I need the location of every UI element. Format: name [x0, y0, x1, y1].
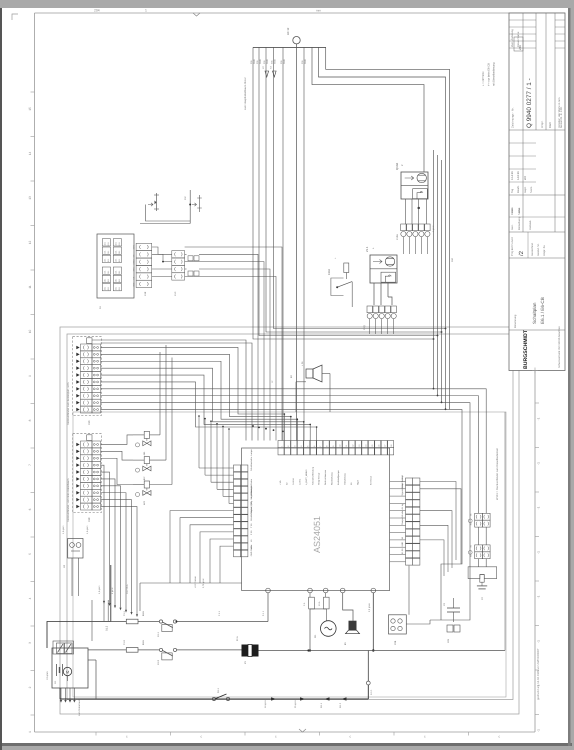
switch S5b	[65, 643, 73, 654]
terminal strip X10A	[401, 224, 406, 231]
fuse F1.2	[126, 648, 138, 653]
left region vertical wires to bottom	[91, 600, 93, 641]
motor starter Q10A outline	[401, 172, 428, 199]
svg-text:AS24051: AS24051	[312, 516, 322, 553]
connector X18 row 9 arrow	[76, 498, 79, 502]
extra long bus wires upper band	[92, 340, 246, 441]
horn component	[343, 593, 353, 621]
dip column interconnect wires	[152, 247, 172, 254]
svg-text:+BR2: +BR2	[133, 245, 136, 250]
relay coil K203	[144, 481, 149, 488]
wire drop turn 1	[253, 47, 434, 339]
switch box group on battery	[53, 641, 74, 654]
controller left pin strip	[234, 465, 241, 472]
motor starter Q10A breaker circle	[417, 173, 426, 182]
relay terminal cluster 1	[475, 513, 483, 520]
connector X18 pin row 5	[81, 469, 93, 476]
connector arrow on wire 4	[273, 71, 277, 77]
relay coil capacitor	[481, 582, 483, 586]
connector X19 row 10 arrow	[76, 408, 79, 412]
svg-text:Bemerkung: Bemerkung	[518, 216, 521, 230]
svg-text:Kl.Sensor: Kl.Sensor	[369, 476, 372, 485]
wire drop turn 3	[266, 47, 442, 332]
svg-text:Kl. 50: Kl. 50	[401, 548, 404, 554]
frame labels right edge line ticks	[535, 402, 539, 404]
svg-text:50 A: 50 A	[236, 636, 239, 641]
svg-text:Gepr.: Gepr.	[524, 186, 527, 193]
svg-text:Blatt: Blatt	[548, 122, 552, 128]
svg-text:35 qmm: 35 qmm	[294, 700, 297, 708]
connector X18 pin row 1	[81, 441, 93, 448]
svg-text:Steckverbinder zum Bedienpult,: Steckverbinder zum Bedienpult, vorn	[67, 382, 70, 425]
svg-text:X29: X29	[447, 638, 450, 643]
svg-text:-1: -1	[537, 551, 541, 554]
svg-text:mit Dieselbedienung: mit Dieselbedienung	[493, 62, 496, 86]
battery symbol	[56, 664, 58, 676]
svg-text:X1B: X1B	[144, 291, 147, 296]
top bus wire	[253, 46, 326, 48]
svg-text:16 qmm: 16 qmm	[264, 700, 267, 708]
svg-text:X10A: X10A	[396, 234, 399, 240]
svg-text:2: 2	[28, 686, 32, 688]
connector X19 pin row 8	[81, 392, 93, 399]
wire drop turn 2	[259, 47, 438, 335]
connector X19 pin row 1	[81, 344, 93, 351]
svg-text:S1.2 35 A: S1.2 35 A	[126, 584, 129, 594]
connector X18 row 6 arrow	[76, 477, 79, 481]
rail right vertical up	[367, 685, 369, 699]
wires from AS left pins going left and down	[170, 511, 234, 583]
connector X18 row 8 arrow	[76, 491, 79, 495]
svg-text:mm: mm	[316, 9, 321, 13]
svg-text:6 qmm: 6 qmm	[432, 225, 435, 232]
svg-text:Hupe: Hupe	[356, 479, 359, 485]
connector X19 row 3 arrow	[76, 360, 79, 364]
dip output paired squares	[188, 256, 193, 261]
connector X18 row 5 arrow	[76, 470, 79, 474]
speaker symbol B2	[306, 369, 313, 378]
switch wire down	[351, 282, 353, 307]
svg-text:S1.2: S1.2	[106, 625, 109, 631]
frame column tick labels left edge	[31, 91, 35, 93]
svg-text:Urspr.: Urspr.	[540, 120, 544, 128]
connector X19 row 1 arrow	[76, 346, 79, 350]
wires Q10A to terminal strip X10A	[404, 199, 406, 224]
svg-text:Rückmeldung: Rückmeldung	[331, 471, 334, 485]
motor starter Q1 breaker circle	[385, 257, 394, 266]
svg-text:Vorwärmung: Vorwärmung	[344, 472, 347, 485]
svg-text:W1.1: W1.1	[320, 702, 323, 708]
svg-text:Starter: Starter	[250, 479, 253, 486]
svg-text:W1.2: W1.2	[339, 702, 342, 708]
svg-text:Norm: Norm	[530, 187, 533, 193]
svg-text:304: 304	[451, 257, 454, 262]
svg-text:Q10A: Q10A	[395, 163, 399, 170]
wire turn right A	[326, 47, 450, 409]
drawing frame border	[35, 12, 566, 14]
svg-text:6: 6	[28, 508, 32, 510]
svg-text:13: 13	[28, 196, 32, 200]
connector X18 top cell	[87, 435, 92, 441]
svg-text:E6.1 / E6-CB: E6.1 / E6-CB	[540, 297, 545, 324]
relay coil tab	[480, 575, 484, 583]
svg-text:Bearb.: Bearb.	[517, 185, 520, 193]
svg-text:8: 8	[28, 419, 32, 421]
svg-text:CAN H: CAN H	[292, 478, 295, 485]
svg-text:Datum Name: Datum Name	[517, 31, 520, 47]
wire right end up	[504, 412, 506, 651]
X19 row 8 long wire to relay column	[101, 396, 479, 514]
connector group X18 dashed outline	[73, 434, 102, 513]
relay coil K202	[144, 457, 149, 464]
svg-text:BURGSCHMIDT: BURGSCHMIDT	[523, 329, 529, 369]
junction dots on center buses	[252, 425, 254, 427]
svg-text:Signalstecker: Signalstecker	[401, 483, 404, 496]
svg-text:Zeichnungs - Nr.: Zeichnungs - Nr.	[511, 107, 515, 128]
diode bowtie K202	[143, 466, 151, 471]
svg-text:-1: -1	[537, 417, 541, 420]
title block benennung cell	[509, 329, 565, 331]
svg-text:X18: X18	[88, 517, 91, 522]
motor starter Q10A divider	[401, 184, 428, 186]
relay coil K201	[144, 431, 149, 438]
svg-text:14: 14	[28, 152, 32, 156]
connector group X19 dashed outline	[73, 337, 102, 416]
svg-text:K1.1: K1.1	[157, 631, 160, 637]
controller AS24051 body	[242, 448, 390, 591]
connector X19 pin row 7	[81, 385, 93, 392]
svg-text:Gez.: Gez.	[511, 224, 514, 230]
wire trunk verticals	[433, 150, 435, 389]
connector X18 pin row 2	[81, 448, 93, 455]
dip switch cells	[102, 239, 110, 246]
svg-text:3.1.1: 3.1.1	[262, 610, 265, 616]
svg-text:-1: -1	[537, 506, 541, 509]
connector X19 pin row 3	[81, 358, 93, 365]
svg-text:A_BATT_MINUS: A_BATT_MINUS	[305, 469, 308, 485]
junction dot under Q10A	[418, 207, 420, 209]
relay K0 box	[68, 539, 83, 559]
title block sheet fraction cell	[509, 257, 565, 259]
connector X18 pin row 7	[81, 482, 93, 489]
svg-text:zum Hauptkabelbaum Motor: zum Hauptkabelbaum Motor	[244, 77, 247, 110]
connector X18 pin row 8	[81, 489, 93, 496]
wire drop 5 straight to strip	[282, 47, 284, 440]
svg-text:-1: -1	[537, 595, 541, 598]
wire drop turn 4	[274, 47, 446, 328]
wire from fuse holder down and right	[146, 205, 191, 222]
connector X18 pin row 4	[81, 462, 93, 469]
boundary box outer	[60, 327, 519, 714]
controller top pin strip	[278, 441, 284, 448]
svg-text:Maßstab: Maßstab	[529, 220, 532, 230]
wires Q1 to strip X1Q	[373, 283, 375, 305]
connector X18 row 3 arrow	[76, 457, 79, 461]
svg-text:M: M	[66, 670, 69, 675]
switch S202 lever	[336, 286, 338, 288]
wire X28 right	[406, 620, 430, 624]
wire from terminal 268 down to K line	[267, 593, 269, 622]
rail junction marks	[271, 697, 277, 700]
svg-text:9: 9	[28, 375, 32, 377]
svg-text:F1.1: F1.1	[123, 611, 126, 616]
dip connector column X1C	[172, 251, 185, 258]
connector X19 pin row 9	[81, 399, 93, 406]
connector X19 pin row 2	[81, 351, 93, 358]
svg-text:S1.1: S1.1	[217, 687, 220, 693]
svg-text:Tag: Tag	[511, 188, 514, 193]
X19 row 7 long wire to relay column	[101, 389, 487, 513]
svg-text:Schaltplan: Schaltplan	[532, 302, 537, 324]
relay socket bracket	[468, 567, 497, 579]
svg-text:Geänd. Nr.: Geänd. Nr.	[537, 243, 540, 256]
horizontal wire under AS	[140, 582, 242, 584]
switch S5a	[57, 643, 65, 654]
svg-text:GND Starter: GND Starter	[250, 544, 253, 556]
svg-text:12.4.99: 12.4.99	[511, 171, 514, 180]
svg-text:/2: /2	[518, 250, 525, 256]
svg-text:-1: -1	[537, 640, 541, 643]
svg-text:Urspr. Zu: Urspr. Zu	[543, 245, 546, 256]
node circle A0	[293, 37, 300, 44]
svg-text:F202: F202	[328, 269, 331, 275]
wire X21 down to X28	[408, 566, 410, 615]
motor starter Q1 outline	[370, 255, 397, 283]
svg-text:Temp-Sensor: Temp-Sensor	[318, 472, 321, 485]
starter motor circle	[63, 667, 71, 675]
fuse F202 small	[344, 263, 349, 273]
relay terminal cluster 2	[475, 545, 483, 552]
svg-text:12: 12	[28, 241, 32, 245]
svg-text:GND: GND	[274, 59, 277, 64]
bus joining fuses	[310, 608, 327, 610]
svg-text:1,5 qmm: 1,5 qmm	[62, 525, 65, 534]
title block date rows	[509, 142, 536, 144]
connector X19 top cell	[87, 338, 92, 344]
fan wires from X18	[101, 435, 133, 445]
connector X19 row 5 arrow	[76, 373, 79, 377]
dip fan wires to center	[185, 253, 187, 255]
title block revision marker	[514, 37, 523, 51]
connector X19 row 8 arrow	[76, 394, 79, 398]
svg-text:S.1/1: S.1/1	[370, 689, 373, 695]
corner registration mark	[12, 14, 18, 20]
connector X18 row 2 arrow	[76, 450, 79, 454]
connector X19 pin row 6	[81, 379, 93, 386]
X19 row 9 long wire to X28	[101, 403, 470, 620]
title block outer box	[509, 13, 565, 371]
svg-text:gedruckt am 14.06.1999 von M: gedruckt am 14.06.1999 von MAYERBOT	[536, 648, 540, 700]
svg-text:GND: GND	[304, 59, 307, 64]
svg-text:21.1: 21.1	[365, 246, 369, 252]
svg-text:Wkst.: Wkst.	[518, 207, 521, 213]
diode bowtie K203	[143, 491, 151, 496]
svg-text:Kraftstoffpumpe: Kraftstoffpumpe	[337, 470, 340, 485]
indicator circle K201	[136, 443, 140, 447]
battery plates below	[60, 688, 62, 700]
svg-text:11: 11	[28, 285, 32, 289]
svg-text:5: 5	[28, 553, 32, 555]
diode line continues right	[259, 650, 506, 652]
terminal strip X1Q	[367, 306, 372, 313]
dip switch block S1 outline	[97, 234, 134, 298]
wires battery to rail	[88, 659, 96, 661]
connector X28 block	[389, 615, 407, 634]
svg-text:# = nur beim E6-CB: # = nur beim E6-CB	[488, 63, 491, 86]
svg-text:1: 1	[145, 9, 147, 13]
svg-text:10 qmm: 10 qmm	[46, 671, 49, 680]
svg-text:Proj.techn.zust: Proj.techn.zust	[510, 237, 514, 256]
svg-text:Gezeichnet: Gezeichnet	[531, 243, 534, 256]
svg-text:Verteiler: alle Werte in mm: Verteiler: alle Werte in mm	[558, 98, 561, 128]
svg-text:Schutzvermerk ISO 16016 beach: Schutzvermerk ISO 16016 beachten	[558, 326, 561, 368]
svg-text:Drehzahlmesser: Drehzahlmesser	[324, 470, 327, 485]
svg-text:14.6.99: 14.6.99	[517, 171, 520, 180]
svg-text:Rückfahrsignal: Rückfahrsignal	[250, 506, 253, 520]
diode bowtie K201	[143, 441, 151, 446]
svg-text:10: 10	[28, 330, 32, 334]
svg-text:+BR1: +BR1	[133, 267, 136, 272]
svg-text:GND: GND	[259, 59, 262, 64]
svg-text:Schaltkontakt u. Lampe: Schaltkontakt u. Lampe	[250, 448, 253, 471]
connector X18 pin row 10	[81, 503, 93, 510]
X19 row 10 long wire	[101, 410, 462, 620]
svg-text:GND: GND	[283, 59, 286, 64]
connector X19 row 9 arrow	[76, 401, 79, 405]
wire terminal 373 down to rail	[372, 593, 374, 651]
wire drop 6 straight to strip	[303, 47, 305, 440]
frame labels bottom edge	[95, 732, 97, 736]
svg-text:3: 3	[28, 642, 32, 644]
fuse F1.1	[126, 619, 138, 624]
wire turn right C	[312, 47, 424, 172]
fuse under terminal 326	[325, 593, 327, 597]
motor M circle	[321, 621, 337, 637]
svg-text:Tempo-Schalter: Tempo-Schalter	[401, 510, 404, 525]
svg-text:X19: X19	[88, 420, 91, 425]
svg-text:4: 4	[28, 597, 32, 599]
switch S1.2 vertical	[110, 565, 112, 622]
connector X18 pin row 9	[81, 496, 93, 503]
connector X18 pin row 3	[81, 455, 93, 462]
svg-text:zum Motorraum: zum Motorraum	[78, 699, 81, 716]
svg-text:2,5 qmm: 2,5 qmm	[368, 603, 371, 612]
svg-text:GND: GND	[253, 59, 256, 64]
svg-text:Benennung: Benennung	[514, 314, 517, 328]
verticals from K relay stubs	[159, 352, 161, 435]
svg-text:2 A: 2 A	[303, 602, 306, 606]
motor starter Q10A aux box	[413, 189, 428, 199]
main rail bottom	[60, 698, 368, 700]
svg-text:7: 7	[28, 464, 32, 466]
svg-text:Zust. Änderung: Zust. Änderung	[510, 29, 514, 47]
motor starter Q1 aux box	[381, 272, 396, 282]
K0 wires down	[71, 558, 73, 596]
title block ers cells	[509, 216, 565, 218]
connector X19 row 6 arrow	[76, 380, 79, 384]
motor starter Q1 divider	[370, 268, 397, 270]
boundary box section right	[73, 412, 506, 697]
svg-text:63 A: 63 A	[142, 640, 145, 645]
svg-text:2.1.1: 2.1.1	[218, 610, 221, 616]
svg-text:Q 9940 0277 / 1 -: Q 9940 0277 / 1 -	[526, 78, 533, 128]
left pins to verticals junctions	[199, 467, 234, 469]
diode V1 line	[177, 649, 242, 651]
svg-text:1: 1	[28, 731, 32, 733]
connector X18 pin row 6	[81, 476, 93, 483]
connector X19 pin row 4	[81, 365, 93, 372]
svg-text:1,5 qmm: 1,5 qmm	[98, 585, 101, 594]
relay contact K1.2	[159, 648, 162, 651]
wires from X21 strip to right	[420, 482, 456, 561]
relay contact K1.1	[159, 620, 162, 623]
svg-text:204: 204	[94, 9, 100, 13]
svg-text:10 A: 10 A	[318, 601, 321, 606]
wires AS right edge to X21 strip	[390, 481, 406, 483]
svg-text:Obfl.: Obfl.	[511, 208, 514, 213]
boundary box inner	[67, 334, 513, 700]
main switch S1.1 on rail	[212, 697, 215, 700]
svg-text:-1: -1	[537, 729, 541, 732]
svg-text:Wd: Wd	[524, 176, 527, 180]
svg-text:F1.2: F1.2	[123, 640, 126, 645]
svg-text:GND: GND	[401, 542, 404, 547]
svg-text:15: 15	[28, 107, 32, 111]
motor starter Q10A arrow symbol	[405, 176, 414, 180]
svg-text:X1Q: X1Q	[363, 325, 366, 330]
connector arrow on wire 3	[265, 71, 269, 77]
connector X18 row 7 arrow	[76, 484, 79, 488]
svg-text:X28: X28	[394, 640, 397, 645]
controller right pin strip X21	[406, 478, 413, 485]
title block column lines	[522, 13, 524, 232]
svg-text:Steckverbinder, vorn links Ka: Steckverbinder, vorn links Kabelbaum	[67, 479, 70, 522]
svg-text:63 A: 63 A	[142, 611, 145, 616]
wire turn right B	[319, 47, 446, 409]
title block drawing number cell	[509, 129, 565, 131]
svg-text:-1: -1	[537, 462, 541, 465]
connector X19 row 4 arrow	[76, 366, 79, 370]
dip fan extra wire	[185, 247, 282, 441]
component C3 right	[447, 607, 460, 609]
switch S202 box	[331, 278, 344, 296]
fan wires from X19 rows 1-6 to strip	[101, 347, 285, 440]
inline plug right vertical	[189, 190, 191, 224]
wires between relay clusters	[478, 527, 480, 545]
svg-text:A0 12: A0 12	[286, 27, 290, 35]
svg-text:W101 = Steckverbinder zum Di: W101 = Steckverbinder zum Dieselbediente…	[496, 448, 499, 500]
battery block outline	[52, 648, 88, 688]
connector X19 row 2 arrow	[76, 353, 79, 357]
inline fuse holder left	[156, 193, 158, 211]
svg-text:K1.2: K1.2	[157, 659, 160, 665]
wires below cluster2 to socket	[478, 559, 480, 567]
title block change-rows header	[509, 19, 536, 21]
svg-text:+24 V intern: +24 V intern	[194, 575, 197, 588]
center fold mark bottom	[299, 729, 306, 732]
connector X18 row 1 arrow	[76, 443, 79, 447]
dip connector column X1B	[136, 243, 152, 250]
svg-text:CAN L: CAN L	[298, 478, 301, 485]
connector X19 pin row 5	[81, 372, 93, 379]
connector X18 row 4 arrow	[76, 463, 79, 467]
main switch S1.2 wire	[47, 622, 111, 649]
svg-text:+ = OPTION: + = OPTION	[482, 71, 485, 86]
fuse under terminal 310	[309, 593, 311, 597]
indicator circle K203	[136, 493, 140, 497]
svg-text:GND: GND	[133, 282, 136, 287]
svg-text:GND: GND	[266, 59, 269, 64]
